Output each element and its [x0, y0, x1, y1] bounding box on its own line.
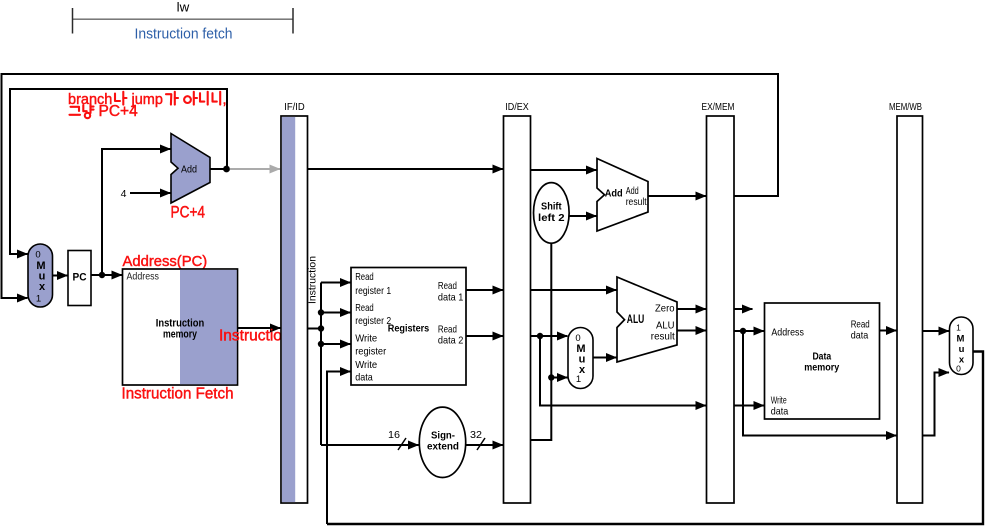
node PC-out junction: [99, 272, 105, 278]
node immediate junction: [548, 374, 554, 380]
svg-text:Instruction: Instruction: [219, 328, 291, 345]
wire read data to WB mux input 1: [923, 330, 950, 332]
svg-text:result: result: [651, 331, 675, 343]
svg-text:Read: Read: [355, 302, 374, 314]
wire IF/ID to ID/EX (PC+4): [308, 168, 504, 170]
wire Read data to MEM/WB: [880, 330, 897, 332]
wire to Read register 2: [321, 312, 351, 314]
lw bracket ruler: [73, 8, 294, 34]
svg-text:16: 16: [388, 429, 400, 441]
mux M3 (write-back): [950, 317, 974, 375]
instruction memory: [123, 269, 238, 385]
svg-text:1: 1: [576, 374, 581, 385]
wire ALU result bypass to WB mux input 0: [923, 373, 941, 436]
svg-text:4: 4: [121, 188, 127, 200]
svg-text:Address: Address: [127, 271, 160, 283]
wire shift left 2 to adder: [569, 215, 596, 217]
svg-text:data 1: data 1: [438, 292, 464, 304]
svg-text:,: ,: [223, 92, 227, 108]
wire ID/EX to Add result adder (PC+4): [531, 169, 597, 171]
wire instruction memory output to IF/ID: [238, 327, 281, 329]
svg-text:PC: PC: [73, 272, 87, 284]
mux M1 (PC source): [28, 244, 53, 307]
svg-text:left 2: left 2: [538, 212, 565, 224]
wire instruction from IF/ID to distribution node: [308, 328, 322, 330]
svg-text:memory: memory: [804, 362, 839, 374]
svg-text:u: u: [959, 344, 965, 355]
svg-text:ALU: ALU: [627, 312, 645, 326]
wire ID/EX read data 1 to ALU: [531, 289, 617, 291]
svg-text:M: M: [957, 334, 965, 345]
svg-text:MEM/WB: MEM/WB: [889, 101, 922, 113]
register PC: [68, 251, 91, 306]
svg-text:Read: Read: [355, 271, 374, 283]
svg-text:data: data: [771, 406, 789, 418]
sign-extend unit: [419, 407, 465, 477]
wire Read data 2 to ID/EX: [466, 335, 503, 337]
wire ALU result to data memory Address: [734, 330, 764, 332]
wire immediate to ALU mux: [551, 377, 567, 379]
data memory: [765, 303, 880, 419]
wire Read data 1 to ID/EX: [466, 289, 503, 291]
wire to Read register 1: [321, 282, 351, 284]
wire Add result to EX/MEM: [648, 195, 706, 197]
pipeline register IF/ID: [281, 101, 308, 503]
red annotation: branch나 jump가 아니니,: [68, 92, 227, 108]
svg-text:Zero: Zero: [655, 303, 675, 315]
wire Add output to junction: [210, 168, 227, 170]
svg-text:Add: Add: [181, 164, 197, 176]
wire instruction distribution vertical: [320, 283, 322, 446]
svg-text:Shift: Shift: [541, 201, 562, 213]
svg-text:x: x: [39, 281, 46, 293]
node instr junction read reg2: [318, 309, 324, 315]
svg-text:Write: Write: [355, 333, 377, 345]
adder Add (PC+4): [171, 134, 210, 204]
wire Zero out of EX/MEM (dangling): [734, 308, 753, 310]
svg-text:lw: lw: [177, 0, 190, 14]
wire mux to PC: [53, 275, 68, 277]
mux M2 (ALU source): [568, 328, 593, 389]
svg-text:Instruction Fetch: Instruction Fetch: [122, 386, 234, 403]
red annotation: 그냥 PC+4: [70, 103, 139, 120]
svg-text:Instruction fetch: Instruction fetch: [135, 27, 233, 43]
wire ID/EX immediate out: [531, 243, 552, 440]
wire mux to ALU: [593, 357, 617, 359]
wire branch-target feedback (outer loop to Mux input 1): [2, 74, 779, 298]
node read data 2 junction: [537, 333, 543, 339]
wire PC to instruction memory Address: [91, 274, 122, 276]
svg-text:register 2: register 2: [355, 315, 391, 327]
svg-text:register 1: register 1: [355, 285, 391, 297]
svg-text:0: 0: [956, 364, 961, 374]
wire ALU result bypass to MEM/WB: [743, 331, 894, 436]
svg-text:Instruction: Instruction: [307, 256, 319, 304]
adder Add result: [597, 159, 648, 232]
pipeline register MEM/WB: [889, 101, 923, 503]
svg-text:ID/EX: ID/EX: [505, 101, 529, 113]
wire EX/MEM to data memory Write data: [734, 405, 764, 407]
wire write-back loop: [327, 352, 983, 525]
shift left 2 unit: [534, 183, 570, 244]
svg-text:0: 0: [35, 250, 40, 261]
svg-text:32: 32: [470, 429, 482, 441]
svg-text:Address(PC): Address(PC): [123, 254, 208, 270]
svg-text:1: 1: [956, 323, 961, 333]
wire gray PC+4 to IF/ID: [230, 168, 280, 170]
registers file: [351, 268, 466, 386]
node instr junction write reg: [318, 341, 324, 347]
wire Sign-extend to ID/EX: [466, 444, 503, 446]
node Add-out junction: [223, 166, 230, 173]
wire ID/EX read data 2 to ALU mux and EX/MEM: [531, 335, 568, 337]
svg-text:1: 1: [36, 294, 41, 305]
svg-text:Add: Add: [605, 188, 623, 200]
svg-text:data 2: data 2: [438, 335, 464, 347]
svg-text:data: data: [355, 372, 373, 384]
svg-text:PC+4: PC+4: [171, 204, 206, 222]
wire PC to Add: [102, 149, 158, 275]
svg-text:Read: Read: [438, 280, 457, 292]
svg-text:Address: Address: [771, 327, 804, 339]
svg-text:PC+4: PC+4: [99, 103, 139, 120]
svg-text:result: result: [626, 196, 647, 208]
svg-text:memory: memory: [163, 329, 198, 341]
pipeline register ID/EX: [504, 101, 531, 503]
node ALU result junction: [740, 328, 746, 334]
wire to Write register: [321, 343, 351, 345]
svg-text:extend: extend: [427, 441, 459, 453]
wire Zero to EX/MEM: [677, 308, 706, 310]
svg-text:register: register: [355, 346, 386, 358]
wire PC+4 feedback (inner loop to Mux input 0): [10, 89, 227, 254]
svg-text:IF/ID: IF/ID: [284, 101, 305, 113]
pipeline register EX/MEM: [702, 101, 735, 503]
wire ALU result to EX/MEM: [677, 330, 706, 332]
wire 4 to Add: [130, 192, 171, 194]
svg-text:Write: Write: [355, 359, 377, 371]
ALU: [617, 277, 677, 362]
svg-text:data: data: [851, 330, 869, 342]
svg-text:EX/MEM: EX/MEM: [702, 101, 735, 113]
node instr junction incoming: [318, 325, 324, 331]
svg-text:Registers: Registers: [388, 323, 430, 335]
wire to Sign-extend: [321, 444, 419, 446]
wire write-back into Write data: [327, 372, 348, 525]
